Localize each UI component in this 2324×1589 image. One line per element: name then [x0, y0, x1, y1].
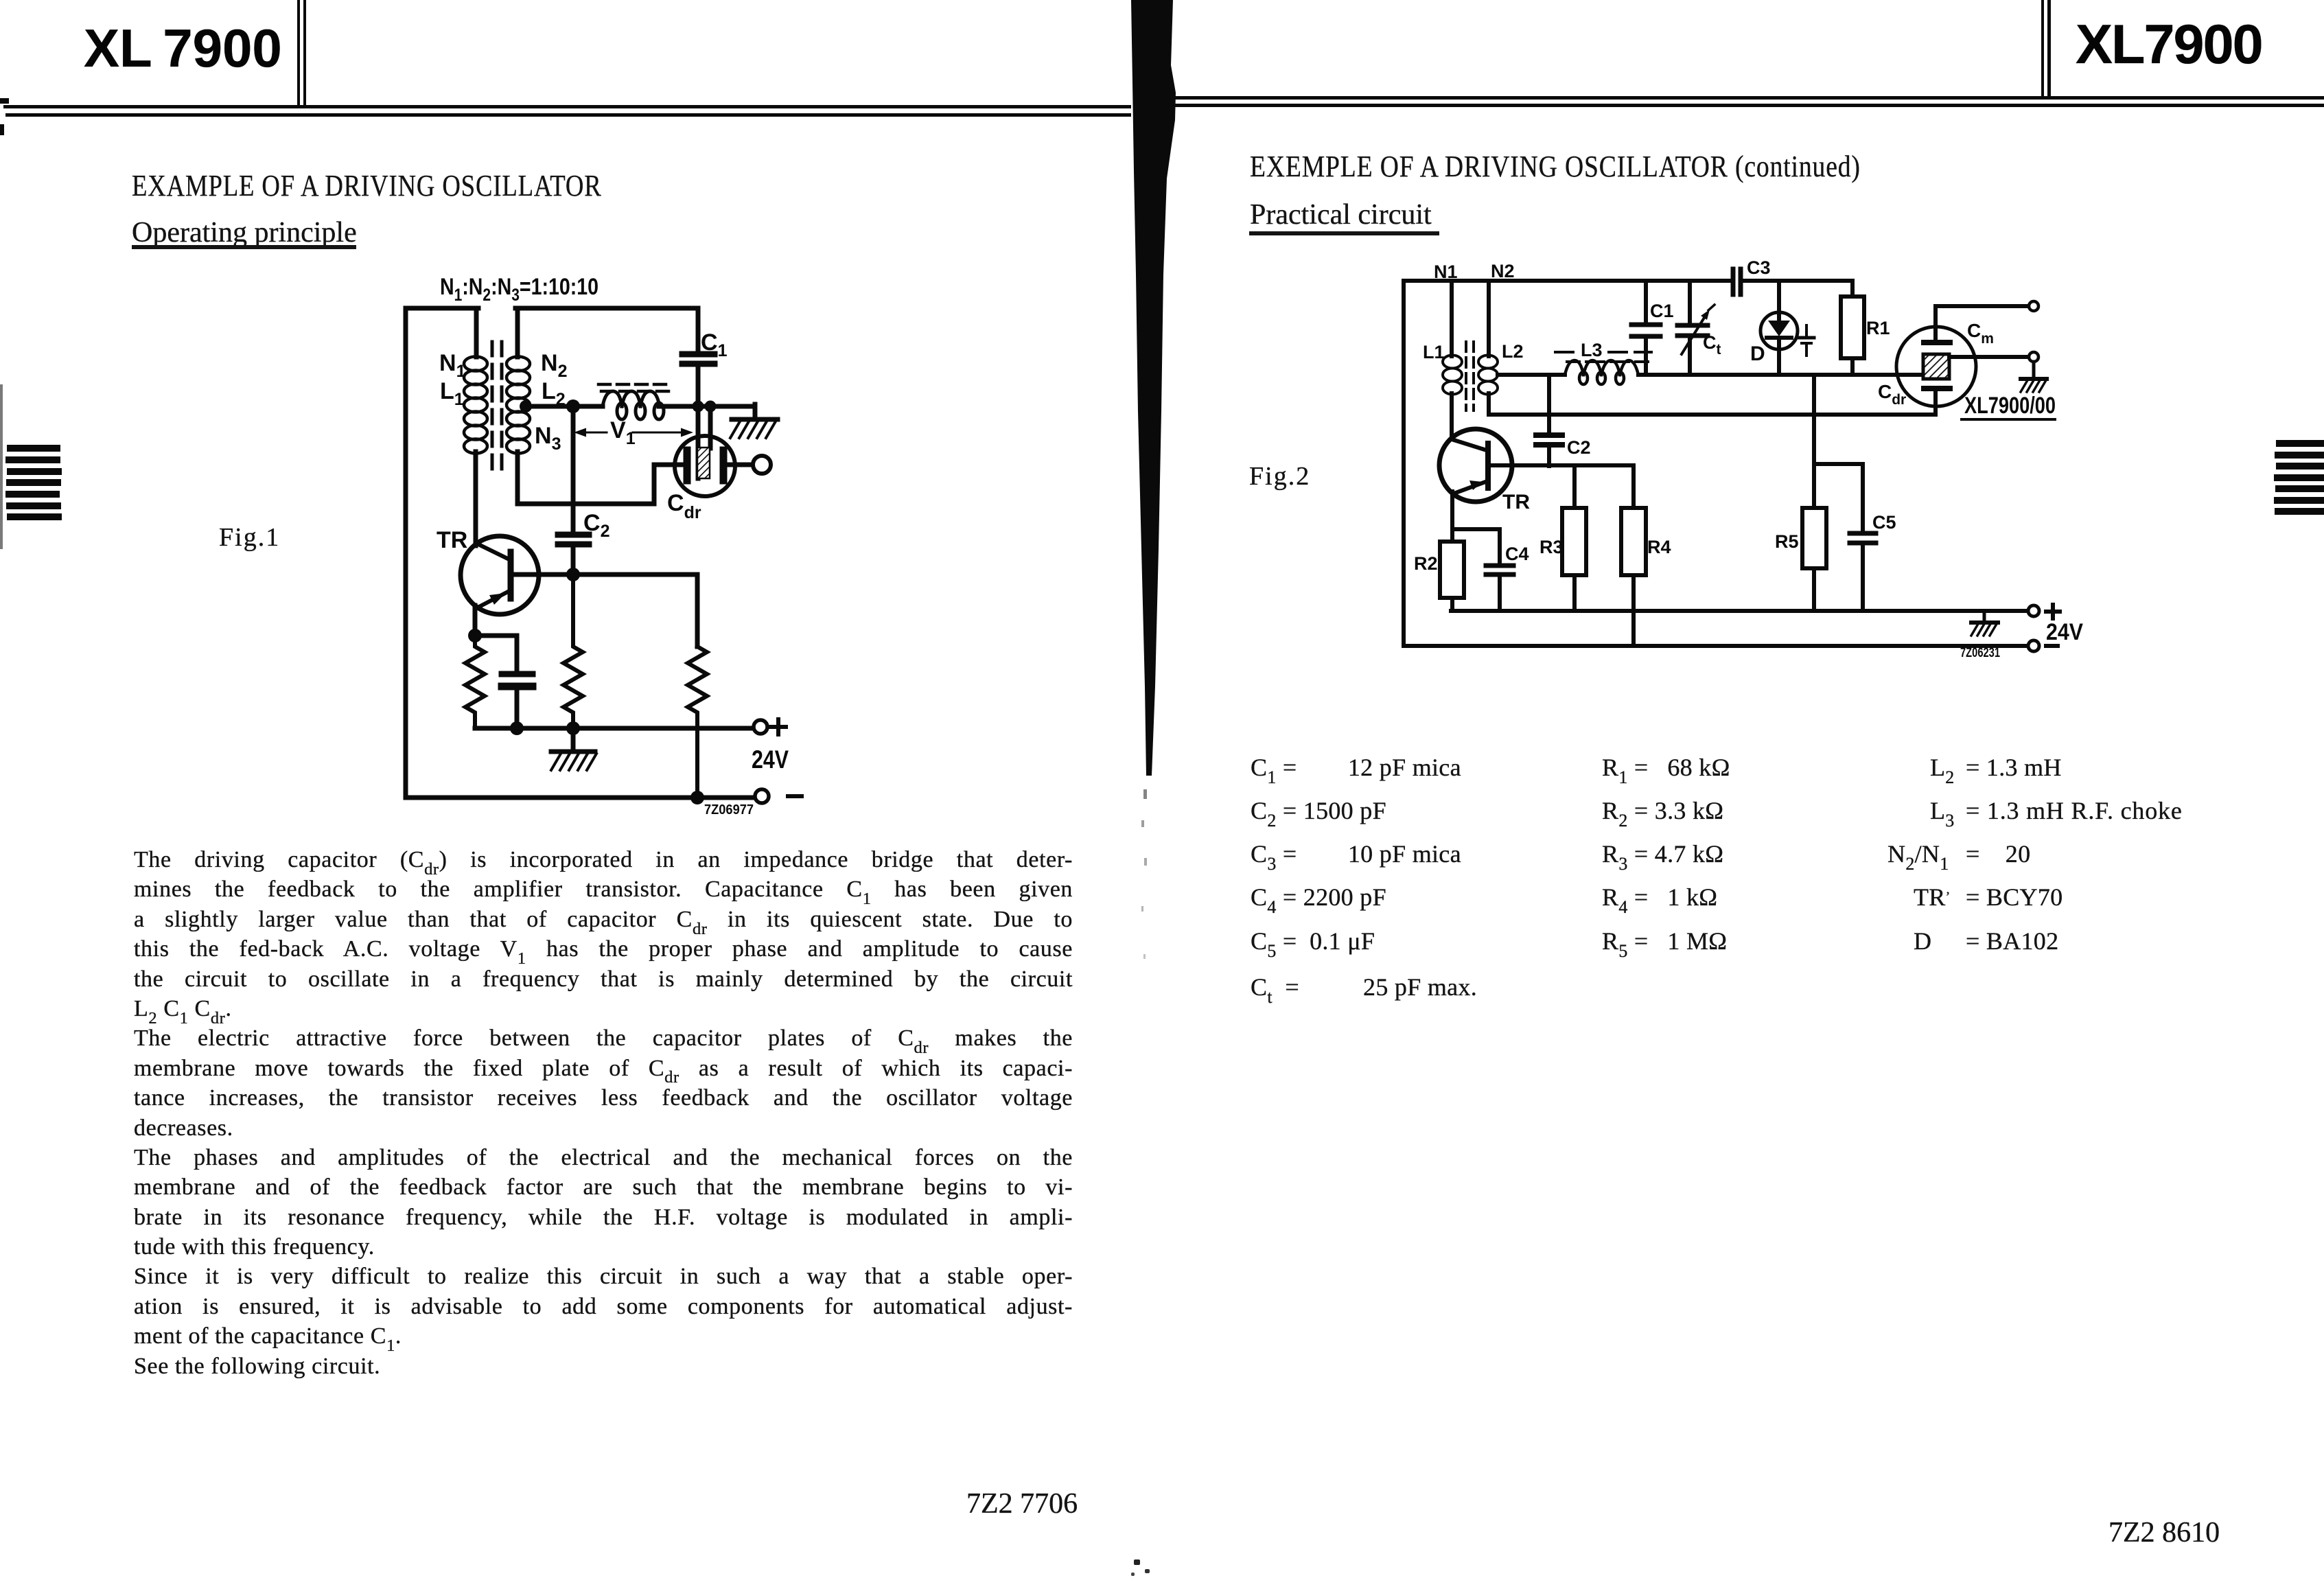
wire negative rail [406, 796, 755, 800]
transformer T1 core [492, 342, 502, 474]
Cdr moving plate leads [698, 406, 710, 478]
node junction bypass cap [510, 721, 524, 735]
wire inductor to Cdr node [659, 404, 755, 409]
capacitor C1 [696, 308, 701, 406]
left header vertical double line [297, 0, 300, 108]
Cdr fixed plate left [684, 450, 691, 480]
svg-text:R2: R2 [1414, 553, 1438, 574]
TR base bar [1485, 443, 1491, 488]
label N2 [1491, 261, 1515, 281]
svg-text:7Z06977: 7Z06977 [704, 802, 754, 817]
terminal top [2029, 301, 2038, 311]
svg-text:C5: C5 [1872, 512, 1896, 533]
right header vertical double line [2041, 0, 2044, 97]
capacitor C2 [571, 406, 576, 575]
Cm top plate [1924, 340, 1950, 345]
label Cdr [1878, 381, 1906, 408]
transformer T1 primary winding N1/L1 [464, 357, 487, 454]
wire lower rail to Cdr bottom [1489, 413, 1936, 417]
Cdr moving plate hatched [697, 448, 710, 478]
capacitor (emitter bypass) [515, 636, 520, 728]
label TR [1502, 491, 1530, 513]
transformer L2 winding [1478, 356, 1498, 395]
microphone capsule circle [1896, 327, 1976, 406]
inductor L3 [1565, 360, 1638, 384]
svg-text:R3: R3 [1539, 537, 1564, 557]
svg-text:R1: R1 [1866, 318, 1890, 338]
node junction collector resistor [690, 791, 704, 804]
label V1 [610, 417, 636, 448]
label L2 [542, 378, 566, 409]
ratio title N1:N2:N3=1:10:10 [440, 274, 599, 305]
capacitor C4 [1486, 566, 1513, 575]
node emitter junction [468, 629, 482, 642]
TR emitter diagonal with arrow [479, 590, 511, 607]
left margin ticks [0, 98, 9, 104]
wire N2 lead [1487, 281, 1491, 356]
transformer L1 winding [1443, 356, 1462, 395]
right page horizontal double rule [1167, 96, 2324, 100]
wire positive rail [475, 726, 753, 731]
label 24V [752, 745, 789, 774]
capacitor Ct (trimmer) [1688, 283, 1692, 375]
left edge bars [7, 445, 60, 452]
node tap junction [520, 400, 532, 413]
svg-text:L1: L1 [440, 378, 464, 409]
TR collector diagonal [478, 544, 511, 560]
label TR [437, 527, 467, 553]
diode D [1761, 312, 1798, 349]
Cdr bottom plate [1924, 386, 1950, 391]
label R1 [1866, 318, 1890, 338]
label C2 [583, 510, 609, 541]
ground (24V plus) [1971, 611, 1998, 636]
terminal plus [754, 719, 786, 734]
label Cdr [667, 490, 701, 522]
TR base bar [508, 552, 514, 599]
stray capacitor symbol [1799, 325, 1814, 356]
resistor (base divider) [563, 575, 583, 728]
wire to ground (bottom) [571, 728, 576, 751]
wire N1 top lead [474, 308, 479, 357]
svg-text:N2: N2 [541, 350, 567, 381]
svg-text:R5: R5 [1775, 531, 1799, 552]
label L3 [1581, 340, 1603, 360]
label N1 [1434, 262, 1458, 282]
wire to ground [753, 404, 758, 419]
wire R5 branch [1814, 375, 1863, 531]
svg-text:D: D [1750, 343, 1765, 365]
resistor R5 [1802, 508, 1826, 611]
inductor L3 core dashes [1555, 352, 1651, 362]
svg-text:XL7900/00: XL7900/00 [1964, 392, 2056, 419]
node Cdr junction [705, 401, 717, 413]
ground (capsule) [2021, 379, 2047, 392]
svg-text:Cm: Cm [1967, 320, 1994, 347]
wire emitter to bypass cap [475, 634, 517, 638]
label 7Z06231 [1960, 646, 2000, 660]
svg-text:24V: 24V [2046, 619, 2083, 645]
svg-text:L1: L1 [1423, 342, 1445, 362]
resistor (collector load) [688, 647, 707, 798]
svg-text:24V: 24V [752, 745, 789, 774]
right edge bars [2276, 440, 2324, 447]
label R3 [1539, 537, 1564, 557]
label N3 [535, 423, 561, 454]
svg-text:N1: N1 [439, 350, 466, 381]
wire Cm top lead [1936, 306, 2029, 340]
label C1 [701, 329, 728, 360]
wire emitter lead [1450, 491, 1454, 529]
terminal (Cdr output) [753, 456, 771, 474]
label 7Z06977 [704, 802, 754, 817]
svg-text:V1: V1 [610, 417, 636, 448]
wire R3 branch [1572, 465, 1577, 508]
svg-text:C3: C3 [1747, 257, 1771, 278]
wire emitter node to R2/C4 [1452, 529, 1500, 564]
transformer T1 secondary winding N2/N3 (L2) [507, 357, 530, 454]
left page horizontal double rule [3, 105, 1131, 108]
capacitor C3 [1733, 269, 1741, 294]
resistor R1 [1841, 283, 1864, 375]
svg-text:TR: TR [437, 527, 467, 553]
V1 arrow [574, 428, 693, 437]
TR collector diagonal [1452, 439, 1487, 450]
wire top rail to C1 [515, 308, 698, 357]
wire positive rail [1451, 609, 2030, 613]
wire Cdr right lead [727, 463, 753, 467]
wire negative rail [1404, 644, 2030, 648]
label R2 [1414, 553, 1438, 574]
svg-text:N1: N1 [1434, 262, 1458, 282]
node junction base resistor [566, 721, 580, 735]
wire top rail [1404, 279, 1852, 283]
wire L2 bottom lead [1487, 393, 1491, 415]
label C4 [1505, 544, 1529, 564]
wire mid rail [1638, 373, 1924, 377]
transistor TR [461, 536, 539, 614]
label L2 [1502, 341, 1524, 362]
svg-text:N1:N2:N3=1:10:10: N1:N2:N3=1:10:10 [440, 274, 599, 305]
wire Cdr bottom lead [1933, 391, 1938, 415]
wire L1 bottom to TR collector [1450, 393, 1454, 439]
resistor (emitter bias) [465, 636, 485, 728]
wire outer left loop [406, 308, 478, 798]
component list [1251, 753, 1461, 782]
capacitor C2 [1547, 375, 1551, 466]
label C5 [1872, 512, 1896, 533]
label L1 [440, 378, 464, 409]
resistor R3 [1562, 508, 1586, 611]
svg-text:R4: R4 [1647, 537, 1671, 557]
wire outer left loop [1402, 281, 1406, 646]
wire N3 bottom to Cdr left plate [518, 452, 684, 504]
label N2 [541, 350, 567, 381]
svg-text:N3: N3 [535, 423, 561, 454]
resistor R4 [1621, 508, 1646, 646]
node junction at C2 branch [566, 399, 580, 413]
terminal minus [2028, 640, 2058, 651]
label D [1750, 343, 1765, 365]
svg-text:C1: C1 [1650, 301, 1674, 321]
spine dark band [1098, 0, 1208, 1030]
membrane (hatched) [1923, 354, 1949, 379]
wire membrane lead [1949, 355, 2029, 359]
Cdr fixed plate right [720, 450, 728, 480]
wire tap to inductor [526, 404, 603, 409]
label C1 [1650, 301, 1674, 321]
terminal mid [2029, 352, 2038, 362]
spine bottom specks [1134, 1559, 1140, 1565]
wire terminal to ground [2032, 362, 2036, 378]
node base junction [566, 568, 580, 581]
inductor core dashes [599, 384, 670, 391]
ground (top right) [730, 419, 778, 438]
label C2 [1567, 437, 1591, 458]
svg-text:L2: L2 [1502, 341, 1524, 362]
svg-text:TR: TR [1502, 491, 1530, 513]
label R5 [1775, 531, 1799, 552]
label N1 [439, 350, 466, 381]
capacitor Cdr (capsule) [675, 436, 735, 496]
svg-text:N2: N2 [1491, 261, 1515, 281]
svg-text:7Z06231: 7Z06231 [1960, 646, 2000, 660]
svg-text:C2: C2 [1567, 437, 1591, 458]
wire emitter lead [473, 605, 478, 636]
transistor TR [1439, 429, 1512, 502]
svg-text:Ct: Ct [1703, 332, 1721, 358]
node C1 junction [693, 401, 704, 413]
capacitor C5 [1850, 533, 1876, 543]
terminal minus [755, 789, 802, 803]
label C3 [1747, 257, 1771, 278]
label R4 [1647, 537, 1671, 557]
transformer core [1466, 342, 1474, 410]
label L1 [1423, 342, 1445, 362]
wire L2 tap to L3 [1498, 373, 1565, 377]
capacitor C1 [1644, 283, 1648, 375]
label XL7900/00 [1962, 392, 2056, 419]
resistor R2 [1440, 529, 1464, 611]
wire base rail [1490, 465, 1634, 508]
ground (bottom) [551, 752, 596, 770]
TR emitter diagonal with arrow [1454, 480, 1487, 494]
wire N1 lead [1450, 281, 1454, 356]
svg-text:L3: L3 [1581, 340, 1603, 360]
wire base rail [511, 575, 697, 647]
label Cm [1967, 320, 1994, 347]
inductor (feedback coil) [603, 391, 664, 419]
label Ct [1703, 332, 1721, 358]
svg-text:C4: C4 [1505, 544, 1529, 564]
label 24V [2046, 619, 2083, 645]
terminal plus [2028, 605, 2060, 618]
wire collector lead [474, 452, 478, 546]
